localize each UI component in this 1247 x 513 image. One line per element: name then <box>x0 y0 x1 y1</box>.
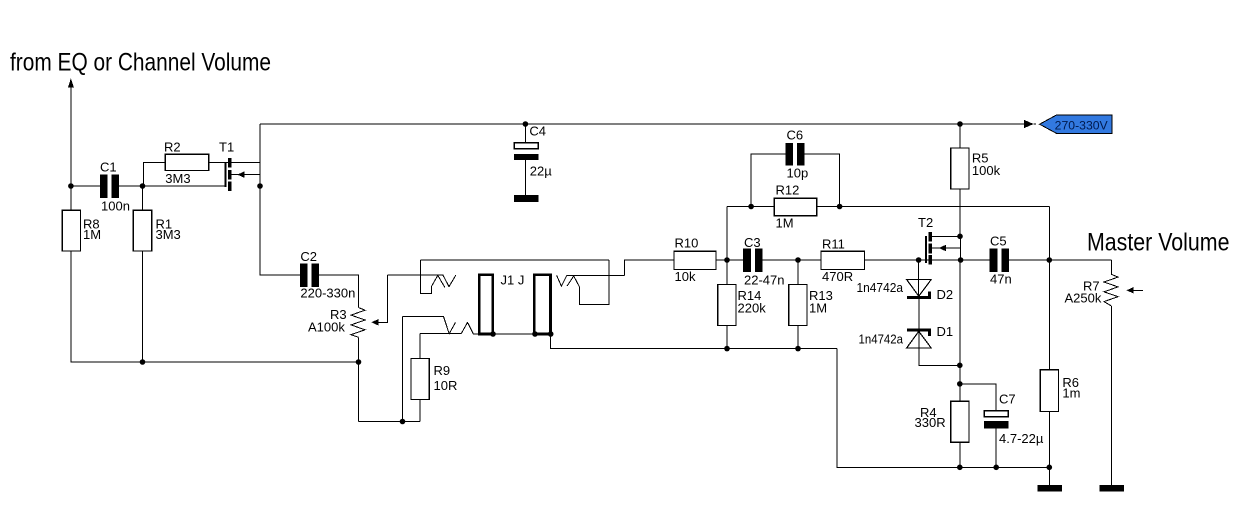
resistor R13 <box>797 260 799 285</box>
node C7 bottom <box>993 465 999 471</box>
wire J2 sleeve down to ground rail <box>551 334 837 349</box>
svg-text:Master Volume: Master Volume <box>1087 229 1230 257</box>
node R13 bottom <box>795 346 801 352</box>
svg-text:C4: C4 <box>529 124 546 139</box>
zener diode D2 <box>918 260 920 298</box>
svg-text:22µ: 22µ <box>530 164 552 179</box>
svg-text:100n: 100n <box>101 199 130 214</box>
jack J1 tip line with V contact <box>388 275 456 286</box>
wire C3 right <box>762 259 821 261</box>
resistor R8 <box>70 186 72 210</box>
transistor T2 drain wire <box>932 235 960 237</box>
svg-text:4.7-22µ: 4.7-22µ <box>999 431 1044 446</box>
wire J2 tip riser to R10 <box>624 260 674 275</box>
potentiometer R3 zigzag <box>351 308 365 338</box>
resistor R9 <box>419 400 421 422</box>
ground below R7 <box>1099 485 1124 492</box>
svg-text:220-330n: 220-330n <box>300 286 355 301</box>
transistor T1 gate bar <box>224 162 226 187</box>
node input/C1 <box>68 183 74 189</box>
wire bottom left rail <box>359 421 421 423</box>
svg-text:R12: R12 <box>776 183 800 198</box>
wire input vertical <box>70 87 72 186</box>
node T2 drain / R5 <box>957 234 963 240</box>
wire C2 right to R3 top <box>319 275 358 308</box>
capacitor C7 branch wire <box>960 384 996 411</box>
wire C5 right <box>1009 259 1111 261</box>
wire C5 out down to R6 <box>1048 260 1050 370</box>
svg-text:270-330V: 270-330V <box>1055 118 1108 132</box>
transistor T2 body line with arrow <box>932 248 961 260</box>
node C1/R1/R2 <box>140 183 146 189</box>
potentiometer R7 top wire <box>1110 260 1112 274</box>
capacitor C4 electrolytic <box>524 124 526 143</box>
svg-text:T2: T2 <box>918 215 933 230</box>
node T2 source <box>958 257 964 263</box>
supply flag 270-330V <box>1040 115 1112 133</box>
transistor T1 channel bars <box>228 158 231 168</box>
resistor R11 <box>821 251 864 269</box>
node D1 join <box>957 363 963 369</box>
svg-text:A250k: A250k <box>1065 291 1102 306</box>
svg-text:C1: C1 <box>100 160 117 175</box>
transistor T2 channel bars <box>928 232 931 242</box>
svg-text:A100k: A100k <box>308 320 345 335</box>
zener diode D1 <box>907 328 931 331</box>
transistor T2 gate bar <box>925 236 927 263</box>
transistor T1 middle (body) line with arrow <box>231 174 260 176</box>
ground rail bottom <box>837 349 1050 468</box>
capacitor C6 <box>785 143 793 166</box>
capacitor C6 riser left <box>751 154 785 206</box>
svg-text:C5: C5 <box>990 234 1007 249</box>
wire J1 to J2 sleeve <box>474 333 535 335</box>
svg-text:1M: 1M <box>83 227 101 242</box>
svg-text:22-47n: 22-47n <box>744 273 784 288</box>
jack J1 body <box>479 275 493 334</box>
node C4 on HT rail <box>523 121 529 127</box>
wire C1 left <box>71 185 100 187</box>
jack J1 upper switch contact <box>421 260 445 293</box>
wire R8 bottom <box>71 251 359 362</box>
svg-text:R11: R11 <box>822 237 845 252</box>
svg-text:J1 J: J1 J <box>501 273 525 288</box>
wire R3 bottom <box>358 337 360 421</box>
wire R2 left riser <box>143 162 165 186</box>
node C5 out <box>1047 257 1053 263</box>
node R5 top on HT rail <box>957 121 963 127</box>
node R3 bottom / left rail <box>356 359 362 365</box>
node C7 branch <box>957 381 963 387</box>
svg-text:330R: 330R <box>915 415 946 430</box>
svg-text:from EQ or Channel Volume: from EQ or Channel Volume <box>10 49 271 77</box>
resistor R6 <box>1040 370 1058 412</box>
resistor R14 <box>726 260 728 285</box>
capacitor C1 <box>100 174 108 198</box>
potentiometer R3 wiper arrow <box>371 319 378 325</box>
svg-text:T1: T1 <box>219 140 234 155</box>
resistor R10 <box>674 251 716 269</box>
svg-text:1n4742a: 1n4742a <box>857 280 904 295</box>
svg-text:R10: R10 <box>675 236 699 251</box>
svg-text:220k: 220k <box>738 301 767 316</box>
svg-text:1m: 1m <box>1062 386 1080 401</box>
ground below R6 <box>1037 485 1062 492</box>
wire R7 bottom to ground <box>1110 306 1112 485</box>
svg-text:10p: 10p <box>787 166 809 181</box>
wire R12 riser from R14 node <box>726 207 728 261</box>
HT top rail <box>260 123 1032 125</box>
wire D2 to D1 <box>918 298 920 348</box>
wire T1 source down to C2 <box>260 186 300 275</box>
capacitor C2 <box>300 263 308 287</box>
wire R12 right <box>817 206 1050 208</box>
node T1 source <box>257 183 263 189</box>
capacitor C3 <box>743 248 751 272</box>
wire C1 right to T1 gate <box>119 185 224 187</box>
svg-text:C6: C6 <box>787 128 804 143</box>
wire T2 source column down <box>960 236 962 260</box>
resistor R5 <box>959 124 961 148</box>
jack rail top <box>421 259 609 261</box>
wire T1 drain riser to HT rail <box>259 124 261 186</box>
wire R1 bottom <box>142 251 144 362</box>
wire D1 bottom to source column <box>919 348 960 365</box>
jack J2 body <box>534 275 550 334</box>
svg-text:100k: 100k <box>972 163 1001 178</box>
svg-text:1M: 1M <box>809 301 827 316</box>
wire R6 to ground <box>1048 467 1050 485</box>
svg-text:3M3: 3M3 <box>156 227 181 242</box>
wire R10 right <box>716 259 743 261</box>
resistor R4 <box>951 401 969 442</box>
node jack contact bottom <box>400 419 406 425</box>
svg-text:C7: C7 <box>999 392 1016 407</box>
input arrow (up) <box>68 78 74 87</box>
svg-text:R2: R2 <box>164 140 181 155</box>
svg-text:470R: 470R <box>822 269 853 284</box>
node R4 bottom <box>957 465 963 471</box>
svg-text:10k: 10k <box>675 269 696 284</box>
node R1 bottom rail <box>140 359 146 365</box>
svg-text:47n: 47n <box>990 272 1012 287</box>
node J2 left pin <box>532 331 538 337</box>
wire feedback down to C5 out node <box>1048 207 1050 261</box>
node R12/C6 right <box>837 204 843 210</box>
ground below C4 <box>514 195 539 202</box>
wire R11 right to T2 gate and source line <box>864 259 989 261</box>
node R10/C3/R14/R12 <box>724 257 730 263</box>
svg-text:C2: C2 <box>300 249 317 264</box>
HT rail arrow <box>1024 120 1034 129</box>
node J1 sleeve <box>490 331 496 337</box>
resistor R12 <box>774 198 816 215</box>
svg-text:D2: D2 <box>937 287 954 302</box>
wire R2 right to T1 gate/drain line <box>209 161 260 163</box>
resistor R1 <box>142 186 144 210</box>
node J2 right pin <box>548 331 554 337</box>
wire R12 line left <box>727 206 774 208</box>
capacitor C5 <box>990 248 998 272</box>
svg-text:1n4742a: 1n4742a <box>859 332 904 347</box>
potentiometer R7 wiper arrow <box>1127 287 1134 293</box>
node T2 gate / D2 <box>916 257 922 263</box>
node R6 bottom <box>1047 465 1053 471</box>
capacitor C6 riser right <box>805 154 840 206</box>
svg-text:10R: 10R <box>434 378 458 393</box>
jack J2 tip V contact and line <box>557 275 625 286</box>
node R14 bottom <box>724 346 730 352</box>
jack J2 spring contact <box>567 260 609 304</box>
node C3/R13/R11 <box>795 257 801 263</box>
potentiometer R7 zigzag <box>1104 274 1118 306</box>
svg-text:R9: R9 <box>434 363 451 378</box>
svg-text:3M3: 3M3 <box>165 171 190 186</box>
jack J1 lower contact lines <box>403 317 456 334</box>
svg-text:1M: 1M <box>776 216 794 231</box>
resistor R2 <box>165 154 209 170</box>
svg-text:D1: D1 <box>937 324 954 339</box>
svg-text:C3: C3 <box>744 235 761 250</box>
node R12/C6 left <box>748 204 754 210</box>
capacitor C7 electrolytic <box>984 411 1008 417</box>
